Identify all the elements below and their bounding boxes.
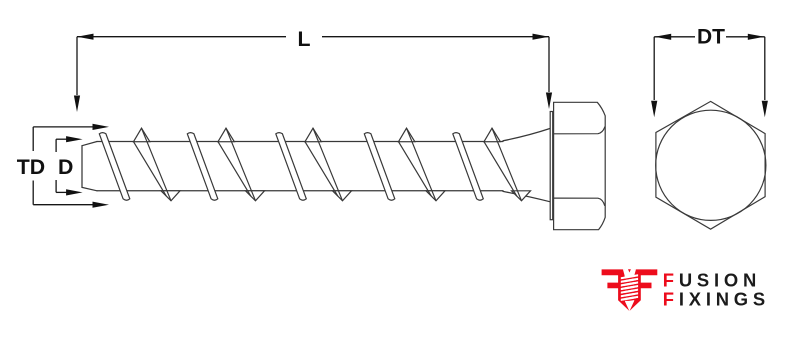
logo screw head funnel [623,269,636,279]
L left extension leg [76,37,78,95]
hex head facet lines [554,127,605,206]
ribbon 1 [99,133,130,201]
screw tip face [81,146,83,188]
flight 5 peak [484,128,500,142]
logo [602,269,770,311]
flight 3 left diagonal [305,142,338,196]
flight 5 main diagonal [492,128,522,201]
cone bottom edge [503,191,550,201]
L right extension leg [548,37,550,92]
flight 1 bottom triangle [161,191,180,201]
logo mark right F [630,269,658,311]
DT left arrowhead [655,34,672,40]
flight 5 bottom triangle [512,191,531,201]
svg-text:FUSION: FUSION [663,269,761,290]
threads: main flights [134,128,531,201]
L horizontal line left segment [77,36,286,38]
D top leader line [56,138,70,140]
logo mark left F [602,269,630,311]
flight 3 bottom triangle [333,191,352,201]
cone top edge [503,128,550,140]
dimension DT [654,37,765,100]
TD top leader line [33,126,93,128]
flight 1 main diagonal [142,128,172,201]
screw tip top edge [82,142,97,146]
D top arrowhead [66,136,83,142]
logo screw slot [628,269,631,272]
hexagon head end view [656,101,765,229]
svg-text:FIXINGS: FIXINGS [663,289,770,310]
L horizontal line right segment [322,36,549,38]
flange washer [550,112,553,220]
TD top arrowhead [93,124,110,130]
D vertical lower segment [55,180,57,192]
D vertical upper segment [55,139,57,152]
DT right leg down arrowhead [762,101,768,118]
svg-text:D: D [58,155,73,179]
TD vertical lower segment [32,181,34,205]
threads: ribbons [99,133,483,201]
flight 4 peak [399,128,415,142]
flight 1 left diagonal [134,142,167,196]
ribbon 5 [453,133,484,201]
L right leg down arrowhead [546,93,552,110]
screw core top line [97,141,503,143]
flight 5 left diagonal [484,142,517,196]
TD vertical upper segment [32,127,34,151]
dimension TD [33,127,93,205]
screw core bottom line [97,190,503,192]
L right arrowhead [533,34,550,40]
DT right arrowhead [748,34,765,40]
ribbon 3 [276,133,307,201]
dimension D [56,139,70,192]
svg-text:L: L [297,27,310,51]
DT left leg down arrowhead [651,101,657,118]
TD bottom leader line [33,204,93,206]
logo screw tip [625,301,634,310]
flight 2 left diagonal [218,142,251,196]
svg-text:TD: TD [17,155,45,179]
DT horizontal line right segment [726,36,765,38]
DT right extension leg [764,37,766,100]
flight 4 left diagonal [399,142,432,196]
ribbon 2 [187,133,218,201]
svg-text:DT: DT [697,26,725,49]
dimension L [77,37,549,95]
flight 4 main diagonal [407,128,437,201]
D bottom leader line [56,191,70,193]
hex head side view [554,102,606,229]
flight 2 main diagonal [226,128,256,201]
L left leg down arrowhead [74,96,80,113]
flight 2 bottom triangle [246,191,265,201]
logo screw thread stripes [621,274,638,302]
flight 3 peak [305,128,321,142]
D bottom arrowhead [66,189,83,195]
flight 1 peak [134,128,150,142]
head inscribed circle [656,110,766,220]
DT horizontal line left segment [654,36,695,38]
screw tip bottom edge [82,187,97,190]
TD bottom arrowhead [93,202,110,208]
ribbon 4 [364,133,395,201]
DT left extension leg [653,37,655,100]
L left arrowhead [77,34,94,40]
flight 4 bottom triangle [426,191,445,201]
flight 3 main diagonal [313,128,343,201]
flight 2 peak [218,128,234,142]
